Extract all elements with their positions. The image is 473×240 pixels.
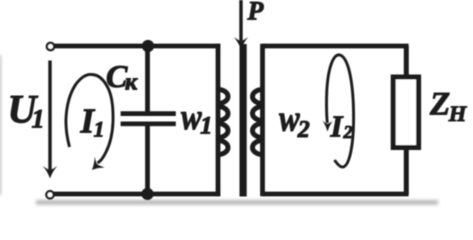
scan shadow left edge (0, 55, 2, 195)
terminal bottom-left (46, 191, 53, 198)
U1 arrowhead (43, 166, 57, 179)
current loop I2 arrowhead (323, 121, 333, 132)
wire right upper (404, 46, 409, 77)
svg-text:2: 2 (343, 122, 353, 142)
scan shadow bottom (36, 200, 438, 205)
capacitor Ck plate top (121, 111, 176, 116)
svg-text:1: 1 (32, 105, 45, 134)
wire right side of left loop / w1 spine (216, 44, 221, 197)
current loop I1 (66, 74, 113, 163)
terminal top-left (47, 43, 54, 50)
power arrow P line (239, 0, 242, 41)
wire right lower (404, 148, 409, 195)
wire capacitor branch upper (145, 46, 150, 112)
wire top (right loop) (263, 44, 409, 49)
U1 voltage arrow line (48, 61, 51, 171)
current loop I1 arrowhead (92, 157, 105, 171)
power arrow P head (234, 37, 248, 50)
svg-text:Z: Z (429, 87, 450, 123)
svg-text:H: H (448, 101, 468, 126)
winding w2 spine / left side of right loop (260, 44, 265, 197)
wire capacitor branch lower (145, 126, 150, 195)
svg-text:2: 2 (297, 117, 310, 143)
capacitor Ck plate bottom (121, 121, 176, 126)
wire bottom (left loop) (54, 192, 221, 197)
transformer core (240, 44, 247, 197)
svg-text:I: I (330, 109, 344, 144)
current loop I2 (327, 55, 354, 167)
wire bottom (right loop) (263, 192, 409, 197)
svg-text:к: к (125, 70, 138, 96)
winding w2 bumps (253, 90, 263, 155)
junction dot top (142, 40, 154, 52)
wire top (left loop) (54, 44, 220, 49)
winding w1 bumps (218, 90, 228, 155)
load box Zn (393, 77, 418, 148)
junction dot bottom (141, 188, 153, 200)
svg-text:w: w (181, 98, 202, 138)
svg-text:1: 1 (94, 117, 105, 142)
svg-text:1: 1 (200, 112, 213, 139)
svg-text:P: P (247, 0, 265, 26)
